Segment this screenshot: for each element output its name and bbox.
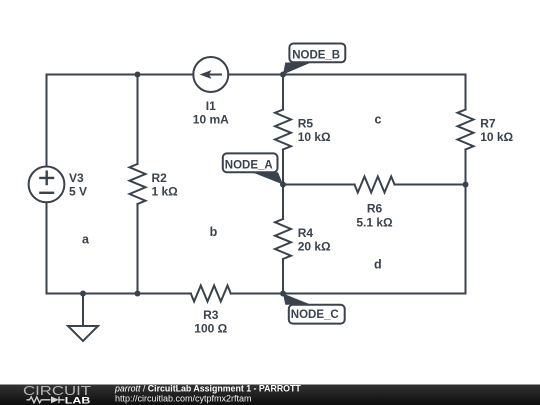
svg-text:R3: R3 bbox=[203, 308, 219, 322]
wire mid vertical lower (R4 leads) bbox=[282, 185, 284, 294]
node NODE_B flag bbox=[283, 44, 345, 75]
wire top-left horizontal bbox=[47, 74, 194, 76]
resistor R3 zigzag bbox=[191, 286, 231, 302]
wire middle horizontal (R6 leads) bbox=[283, 184, 466, 186]
wire R2 branch upper bbox=[137, 75, 139, 165]
svg-text:5 V: 5 V bbox=[69, 185, 87, 199]
wire right vertical upper (R7 leads) bbox=[465, 75, 467, 185]
wire bottom horizontal right bbox=[231, 293, 466, 295]
junction dot bottom R2 bbox=[135, 291, 141, 297]
resistor R4 zigzag bbox=[275, 219, 291, 259]
wire R2 branch lower bbox=[137, 204, 139, 294]
svg-text:LAB: LAB bbox=[65, 395, 91, 405]
resistor R7 zigzag bbox=[458, 110, 474, 150]
junction node A dot bbox=[280, 182, 286, 188]
resistor R2 zigzag bbox=[130, 164, 146, 204]
node NODE_C flag bbox=[283, 294, 345, 324]
svg-text:NODE_B: NODE_B bbox=[292, 50, 340, 62]
svg-text:R4: R4 bbox=[298, 226, 314, 240]
svg-text:10 mA: 10 mA bbox=[193, 113, 229, 127]
junction node C dot bbox=[280, 291, 286, 297]
footer bar bbox=[0, 385, 540, 405]
V3 minus sign bbox=[40, 192, 53, 194]
resistor R5 zigzag bbox=[275, 110, 291, 150]
svg-text:http://circuitlab.com/cytpfmx2: http://circuitlab.com/cytpfmx2rftam bbox=[115, 394, 252, 404]
svg-text:parrott / CircuitLab Assignmen: parrott / CircuitLab Assignment 1 - PARR… bbox=[114, 384, 301, 394]
junction dot R6 right bbox=[463, 182, 469, 188]
svg-text:NODE_C: NODE_C bbox=[291, 309, 339, 321]
current source I1 circle bbox=[193, 57, 228, 92]
svg-text:5.1 kΩ: 5.1 kΩ bbox=[356, 216, 393, 230]
CircuitLab logo squiggle and diode bbox=[27, 397, 65, 404]
svg-text:1 kΩ: 1 kΩ bbox=[152, 185, 179, 199]
voltage source V3 circle bbox=[29, 167, 65, 203]
svg-text:I1: I1 bbox=[206, 99, 216, 113]
svg-text:d: d bbox=[374, 258, 382, 272]
svg-text:R7: R7 bbox=[480, 117, 496, 131]
wire left vertical lower bbox=[46, 203, 48, 294]
svg-text:R5: R5 bbox=[298, 117, 314, 131]
wire top-right horizontal bbox=[228, 74, 465, 76]
V3 plus sign bbox=[40, 172, 53, 184]
svg-text:10 kΩ: 10 kΩ bbox=[298, 130, 331, 144]
svg-text:100 Ω: 100 Ω bbox=[194, 322, 227, 336]
svg-text:R2: R2 bbox=[152, 171, 168, 185]
wire left vertical upper bbox=[46, 75, 48, 167]
svg-text:R6: R6 bbox=[367, 202, 383, 216]
svg-text:10 kΩ: 10 kΩ bbox=[480, 130, 513, 144]
wire bottom horizontal left bbox=[47, 293, 191, 295]
I1 arrow bbox=[205, 74, 223, 76]
junction dot ground bbox=[80, 291, 86, 297]
svg-text:b: b bbox=[210, 225, 218, 239]
svg-text:a: a bbox=[82, 233, 90, 247]
ground symbol bbox=[68, 294, 98, 342]
node NODE_A flag bbox=[223, 153, 283, 184]
resistor R6 zigzag bbox=[355, 177, 395, 193]
wire right vertical lower bbox=[465, 185, 467, 294]
svg-text:V3: V3 bbox=[69, 171, 84, 185]
svg-text:NODE_A: NODE_A bbox=[225, 159, 273, 171]
junction dot top R2 bbox=[135, 72, 141, 78]
junction node B dot bbox=[280, 72, 286, 78]
svg-text:c: c bbox=[375, 113, 382, 127]
svg-text:20 kΩ: 20 kΩ bbox=[298, 240, 331, 254]
wire mid vertical upper (R5 leads) bbox=[282, 75, 284, 185]
